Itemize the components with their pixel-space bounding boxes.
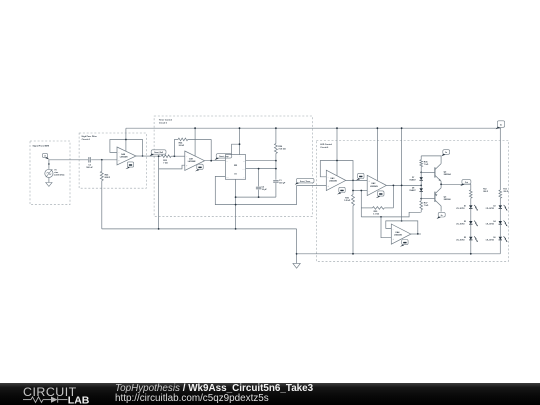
svg-text:TR: TR xyxy=(226,161,228,163)
svg-text:LTL-30753: LTL-30753 xyxy=(486,208,494,210)
wire OA3 V+ stub xyxy=(336,128,338,176)
probe Wv on OA3 out wire xyxy=(356,173,364,180)
resistor R26 timer xyxy=(274,128,286,161)
resistor R30 xyxy=(344,180,354,253)
node flag v1 xyxy=(42,153,49,159)
wire rail to OA4 fb xyxy=(401,128,403,221)
node R26/DIS junction xyxy=(275,160,277,162)
svg-text:Circuit 4: Circuit 4 xyxy=(82,138,91,141)
LED D3 xyxy=(456,221,478,227)
wire ground bus to LEDs xyxy=(297,253,501,255)
wire OA3 out to OA2 xyxy=(346,179,367,181)
svg-text:−: − xyxy=(393,228,395,231)
svg-text:OA7: OA7 xyxy=(189,157,194,160)
capacitor C1 xyxy=(273,180,286,185)
svg-text:LM324N: LM324N xyxy=(370,185,378,188)
wire OA4 output xyxy=(411,233,421,235)
wire R36 to D7 xyxy=(420,172,422,177)
wire D8 to node C xyxy=(420,192,422,199)
capacitor C2 xyxy=(256,186,268,191)
svg-text:+: + xyxy=(328,185,330,188)
resistor R12 xyxy=(469,184,488,205)
wire OA2 output xyxy=(386,184,421,186)
wire OA8 feedback xyxy=(110,140,143,157)
svg-text:Smot_Timer: Smot_Timer xyxy=(300,180,311,183)
svg-text:100 µF: 100 µF xyxy=(279,182,286,184)
svg-text:LTL-30753: LTL-30753 xyxy=(486,224,494,226)
svg-text:0v: 0v xyxy=(441,215,443,217)
node R26 on rail xyxy=(275,127,277,129)
svg-text:LED Control: LED Control xyxy=(320,143,332,146)
wire OA8 V+ stub xyxy=(125,128,127,151)
node OA2 fb junction xyxy=(393,185,395,187)
wire + input detour xyxy=(159,165,185,169)
svg-text:R: R xyxy=(232,156,233,158)
op-amp OA7 xyxy=(185,151,205,170)
resistor R37 xyxy=(420,199,429,213)
node OA3 stub on rail xyxy=(336,127,338,129)
svg-text:Smot_amp: Smot_amp xyxy=(219,155,229,158)
svg-text:U1: U1 xyxy=(234,173,237,175)
svg-text:LTL-30753: LTL-30753 xyxy=(456,239,464,241)
wire OA4 feedback xyxy=(386,221,418,234)
node detour/gnd crossing xyxy=(235,204,237,206)
wire bias return path xyxy=(361,212,421,217)
node OA7 stub on rail xyxy=(194,127,196,129)
block: LED Control Circuit 6 dashed box xyxy=(316,141,508,262)
wire 555 OUT pin detour xyxy=(215,176,296,204)
svg-text:R24: R24 xyxy=(179,142,184,145)
wire C3 to opamp OA8 + xyxy=(91,159,117,161)
node R30 to ground bus xyxy=(352,253,354,255)
probe Av at OA3 xyxy=(337,187,345,194)
wire D2-D4 xyxy=(499,209,501,222)
wire OA7 V+ stub xyxy=(194,128,196,156)
wire OA2 minus branch vertical xyxy=(360,191,362,217)
ground symbol xyxy=(293,263,300,268)
diode D7 xyxy=(409,177,423,181)
node 555 VCC on rail xyxy=(239,127,241,129)
node led col left gnd xyxy=(470,253,472,255)
svg-text:LM324N: LM324N xyxy=(188,160,196,163)
CircuitLab logo xyxy=(23,385,93,404)
resistor R36 xyxy=(420,156,429,173)
wire D5 to ground bus xyxy=(470,240,472,254)
wire D7 to node B xyxy=(420,180,422,185)
svg-text:7 kΩ: 7 kΩ xyxy=(424,205,429,207)
svg-text:LM324N: LM324N xyxy=(120,155,128,158)
op-amp OA4 xyxy=(391,224,411,244)
label V1 sine 1.000 kHz xyxy=(54,169,65,176)
svg-text:−: − xyxy=(328,176,330,179)
probe Av at OA4 xyxy=(400,240,408,247)
LED D1 xyxy=(456,205,478,211)
svg-text:LM324N: LM324N xyxy=(329,180,337,183)
node R30 tap xyxy=(352,190,354,192)
svg-text:Circuit 5: Circuit 5 xyxy=(159,121,168,124)
svg-text:Timer Control: Timer Control xyxy=(159,119,173,122)
svg-text:7 kΩ: 7 kΩ xyxy=(163,163,168,165)
resistor R24 feedback xyxy=(174,138,211,161)
node R24 tap junction xyxy=(174,155,176,157)
svg-text:555: 555 xyxy=(234,165,238,167)
wire ground rail xyxy=(102,228,297,230)
block: High Pass Filter Circuit 4 dashed box xyxy=(79,133,146,188)
voltage source V1 xyxy=(45,163,53,177)
wire v1 node to source xyxy=(48,160,50,169)
wire emitter output xyxy=(441,183,471,185)
svg-text:10 µF: 10 µF xyxy=(262,189,268,191)
node flag Dout xyxy=(460,180,471,186)
transistor Q3 2N3906 xyxy=(435,184,452,211)
node flag +5V at Q2 xyxy=(441,150,449,157)
svg-text:Out: Out xyxy=(465,181,468,184)
svg-text:7 kΩ: 7 kΩ xyxy=(424,164,429,166)
node OA7 fb junction xyxy=(210,160,212,162)
transistor Q2 2N3904 xyxy=(435,156,452,184)
svg-text:500 nF: 500 nF xyxy=(86,167,93,169)
wire Smot_Timer vertical xyxy=(296,185,298,204)
LED D6 xyxy=(486,236,508,242)
wire R25 to ground rail xyxy=(101,181,103,229)
svg-text:1N4007: 1N4007 xyxy=(409,178,415,181)
node junction C3/R25 xyxy=(101,159,103,161)
wire D6 to ground bus xyxy=(499,240,501,254)
wire gnd rail drop xyxy=(296,229,298,263)
svg-text:CV: CV xyxy=(243,177,245,179)
svg-text:300 Ω: 300 Ω xyxy=(483,191,488,193)
resistor R23 xyxy=(161,155,171,165)
node B junction xyxy=(420,185,422,187)
node C2 bottom junction xyxy=(258,196,260,198)
svg-text:V+: V+ xyxy=(240,156,242,158)
probe Av at OA7 xyxy=(195,164,203,171)
op-amp OA3 xyxy=(326,170,346,190)
probe Av at OA8 xyxy=(126,162,134,169)
wire OA3 feedback xyxy=(320,161,353,181)
node OA3 stub/fb crossing xyxy=(336,160,338,162)
block: Timer Control Circuit 5 dashed box xyxy=(154,116,312,216)
diode D8 xyxy=(409,188,423,192)
node rail vert to fb xyxy=(401,220,403,222)
wire D3-D5 xyxy=(470,224,472,237)
wire 555 RESET branch xyxy=(232,144,240,154)
node gnd rail 555-branch xyxy=(235,228,237,230)
svg-text:5v: 5v xyxy=(445,152,447,154)
svg-text:5v: 5v xyxy=(500,125,502,127)
node OA2 minus branch xyxy=(360,190,362,192)
wire V+ top rail xyxy=(126,127,501,129)
svg-text:5.5 kΩ: 5.5 kΩ xyxy=(344,200,350,202)
node OA8 stub/feedback crossing xyxy=(125,139,127,141)
svg-text:+: + xyxy=(368,180,370,183)
node gnd rail R25-branch xyxy=(158,228,160,230)
svg-text:2N3906: 2N3906 xyxy=(444,199,452,201)
svg-text:20 kΩ: 20 kΩ xyxy=(179,145,185,147)
wire R23 to OA7 - xyxy=(171,155,185,157)
wire 555 VCC pin to rail xyxy=(239,128,241,154)
svg-text:OA3: OA3 xyxy=(330,177,335,180)
resistor R29 feedback xyxy=(361,185,393,215)
block: Signal From BMS dashed box xyxy=(30,141,70,205)
svg-text:sine: sine xyxy=(54,172,59,174)
wire ground branch vertical xyxy=(158,156,160,229)
node emitters join xyxy=(440,183,442,185)
LED D2 xyxy=(486,205,508,211)
wire 555 GND pin to ground rail xyxy=(235,179,237,229)
svg-text:1.1 kΩ: 1.1 kΩ xyxy=(373,214,379,216)
wire R30 tap to OA2 - xyxy=(353,190,367,192)
timer U1 555 box xyxy=(225,155,245,180)
node flag +5V rail end xyxy=(496,121,505,129)
wire OA7 output xyxy=(205,160,226,162)
wire Q3 base xyxy=(421,198,435,200)
node OA4 out junction xyxy=(417,233,419,235)
wire OA4 plus branch xyxy=(381,217,391,238)
wire OA8 output to R23 xyxy=(136,155,161,157)
resistor R25 xyxy=(100,171,110,180)
wire C1 C2 bottoms xyxy=(236,196,276,198)
svg-text:Circuit 6: Circuit 6 xyxy=(320,146,329,149)
svg-text:300 Ω: 300 Ω xyxy=(503,191,508,193)
node OA3 out junction xyxy=(352,180,354,182)
svg-text:OA2: OA2 xyxy=(371,182,376,185)
svg-text:OA8: OA8 xyxy=(121,153,126,156)
node 555 reset branch xyxy=(239,143,241,145)
node OA4 plus tap xyxy=(380,216,382,218)
svg-text:+: + xyxy=(186,165,188,168)
node flag Smot_Ball xyxy=(150,150,166,156)
svg-text:−: − xyxy=(368,190,370,193)
node THR/C1 junction xyxy=(275,168,277,170)
svg-text:Smot_Ball: Smot_Ball xyxy=(154,151,163,154)
svg-text:THR: THR xyxy=(242,169,245,171)
svg-text:OUT: OUT xyxy=(226,177,229,179)
svg-text:LAB: LAB xyxy=(68,395,90,405)
svg-text:LTL-30753: LTL-30753 xyxy=(456,208,464,210)
wire D4-D6 xyxy=(499,224,501,237)
node flag Smot_Timer xyxy=(295,178,314,184)
node C junction xyxy=(420,198,422,200)
node main ground junction xyxy=(296,253,298,255)
wire C2 vertical xyxy=(258,169,260,198)
wire v1 to C3 xyxy=(49,159,88,161)
node C2 top junction xyxy=(258,168,260,170)
node OA2 stub on rail xyxy=(377,127,379,129)
svg-text:LM324N: LM324N xyxy=(394,234,402,237)
svg-text:LTL-30753: LTL-30753 xyxy=(486,239,494,241)
wire source to ground xyxy=(48,178,50,183)
svg-text:2N3904: 2N3904 xyxy=(444,173,452,176)
svg-text:73.8 kΩ: 73.8 kΩ xyxy=(278,148,286,150)
svg-text:+: + xyxy=(118,159,120,162)
svg-text:High Pass Filter: High Pass Filter xyxy=(82,135,97,138)
wire Smot_Timer to OA3 + xyxy=(297,184,327,186)
footer caption xyxy=(115,384,313,403)
node input/ground branch xyxy=(158,155,160,157)
wire node B to D8 xyxy=(420,185,422,188)
svg-text:800 Ω: 800 Ω xyxy=(105,177,111,179)
svg-text:+: + xyxy=(393,238,395,241)
wire 555 DIS pin xyxy=(246,160,276,162)
node rail vert crossing OA2 out xyxy=(401,185,403,187)
resistor R13 xyxy=(499,188,509,205)
svg-text:OA4: OA4 xyxy=(395,231,400,234)
op-amp OA2 xyxy=(367,175,386,195)
node gnd/c-wire junction xyxy=(235,196,237,198)
svg-text:1N4007: 1N4007 xyxy=(409,189,415,192)
ground below V1 xyxy=(46,183,52,187)
svg-text:−: − xyxy=(186,156,188,159)
LED D5 xyxy=(456,236,478,242)
LED D4 xyxy=(486,220,508,226)
op-amp OA8 xyxy=(117,147,136,165)
svg-text:(1.000 kHz): (1.000 kHz) xyxy=(54,175,65,177)
node Q2 base tap xyxy=(420,172,422,174)
node flag Smot_amp xyxy=(215,154,232,160)
probe Av at OA2 xyxy=(376,191,384,198)
svg-text:LTL-30753: LTL-30753 xyxy=(456,224,464,226)
svg-text:Signal From BMS: Signal From BMS xyxy=(33,146,50,148)
node OA8 output junction xyxy=(142,155,144,157)
capacitor C3 xyxy=(86,157,93,169)
wire D1-D2 xyxy=(470,209,472,222)
wire 555 THR pin xyxy=(246,168,276,170)
svg-text:v1: v1 xyxy=(44,156,46,158)
wire C1 vertical xyxy=(275,161,277,197)
svg-text:−: − xyxy=(118,152,120,155)
wire Q2 base xyxy=(421,171,435,173)
node flag at Q3 collector xyxy=(437,212,446,219)
wire rail end down xyxy=(499,128,501,190)
wire +5V node xyxy=(421,155,441,157)
wire R25 top lead xyxy=(101,160,103,172)
wire OA2 V+ stub xyxy=(376,128,378,181)
svg-text:DIS: DIS xyxy=(243,161,245,163)
node rail vert top xyxy=(401,127,403,129)
